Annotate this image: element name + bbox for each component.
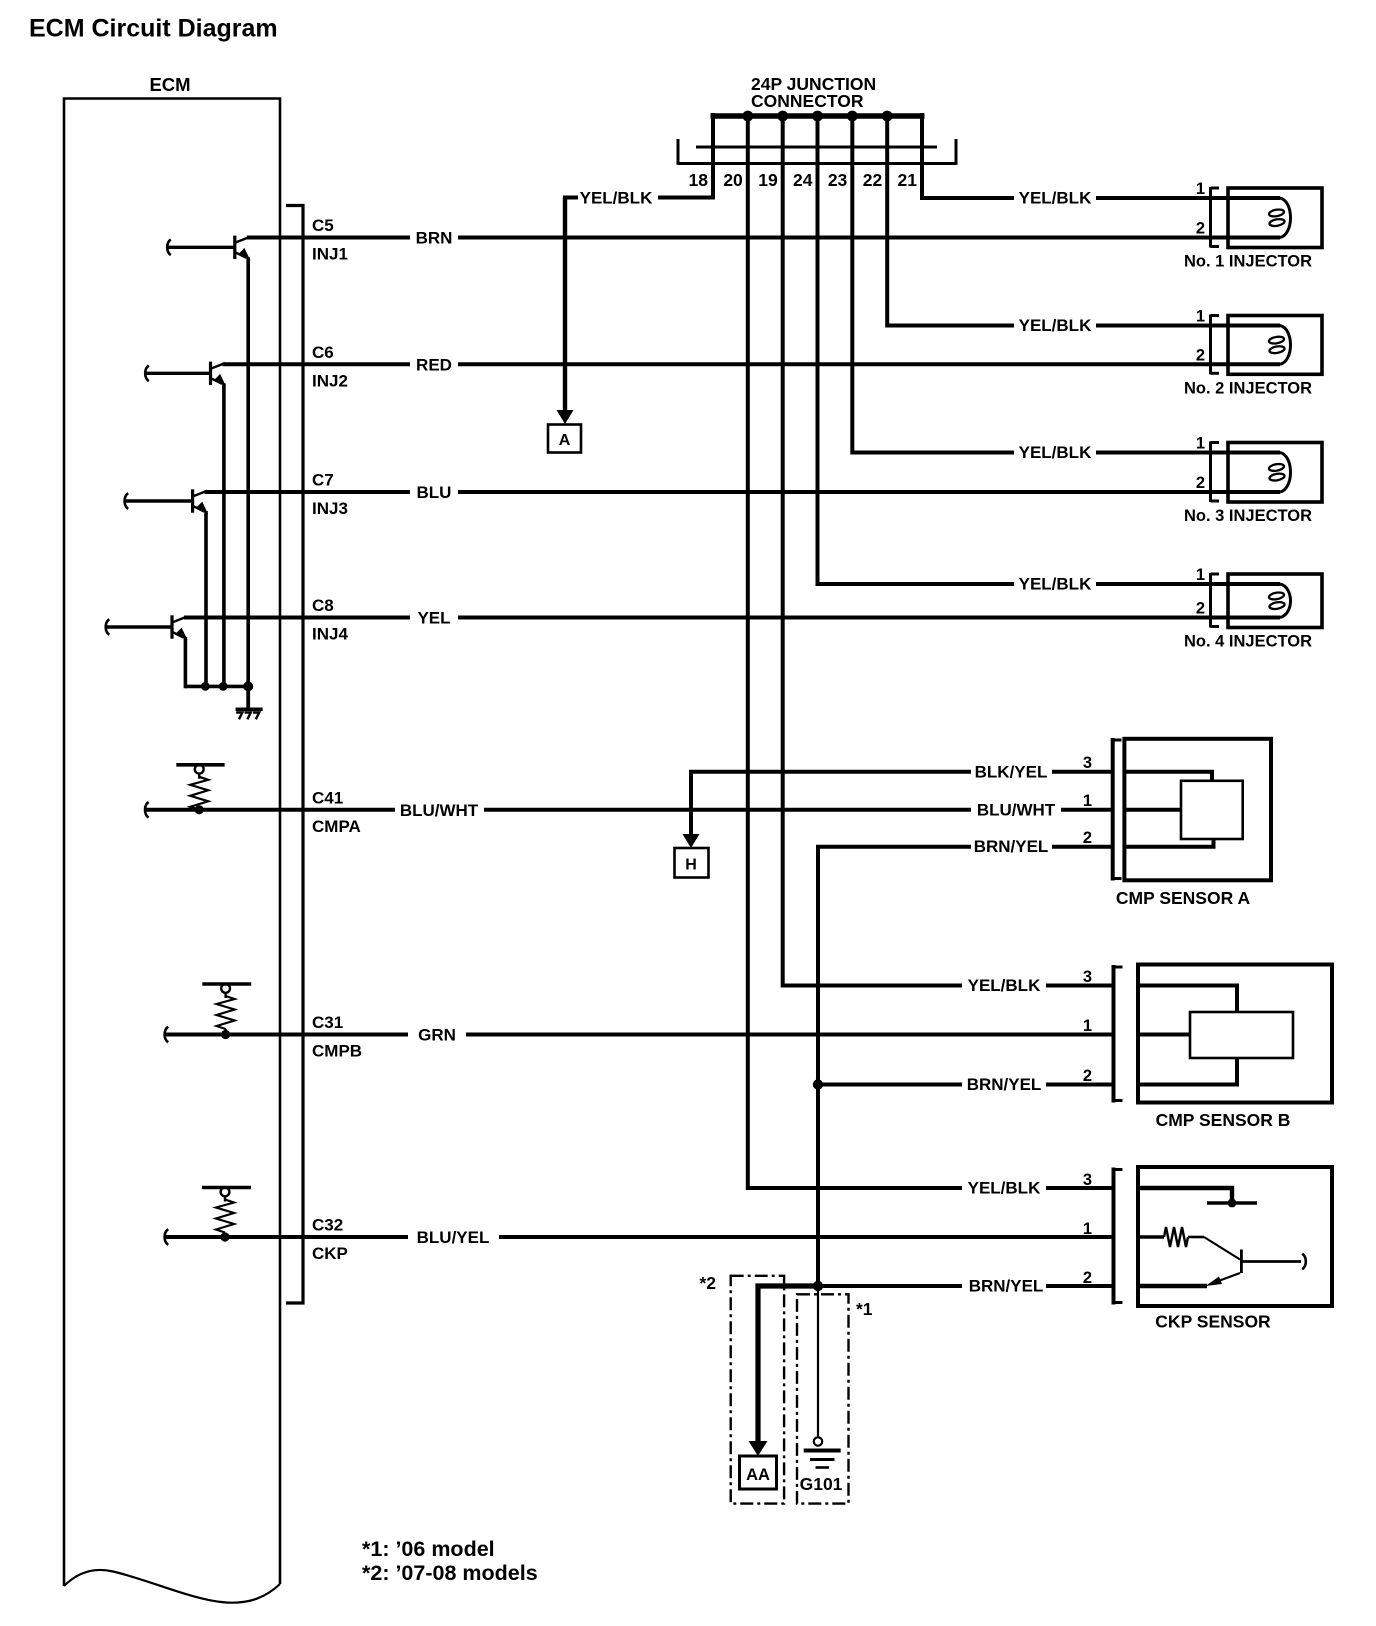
transistor Q8 emitter wire [184,637,188,688]
junction dot (C41) [195,805,204,814]
svg-text:YEL/BLK: YEL/BLK [1019,575,1092,594]
svg-text:INJ1: INJ1 [312,245,348,264]
CMP sensor B pin 1 number [1083,1017,1092,1035]
junction connector bus junction dots [742,111,892,122]
pull-up supply bar (C41) [176,763,224,767]
svg-text:18: 18 [689,170,709,190]
wire junction stub to No.4 injector pin 1 [818,113,1230,584]
svg-text:1: 1 [1196,180,1205,198]
pin 18 label [689,170,709,190]
off-page connector A [548,425,581,453]
transistor Q6 base wire [145,366,210,382]
transistor Q6 emitter wire [222,383,226,688]
svg-text:No. 3 INJECTOR: No. 3 INJECTOR [1184,507,1312,525]
svg-text:INJ3: INJ3 [312,499,348,518]
title ECM Circuit Diagram [29,15,278,43]
transistor Q6 [211,362,227,387]
svg-text:CMP SENSOR A: CMP SENSOR A [1116,888,1251,908]
CMP sensor A pin 2 number [1083,829,1092,847]
pin 19 label [758,170,778,190]
No.1 injector connector bracket [1211,187,1220,248]
No.4 injector box [1228,574,1322,628]
wire BRN/YEL (CMP B pin2) [818,1083,962,1087]
junction connector housing [678,139,956,165]
wire pin18 YEL/BLK [563,113,713,412]
wire BRN/YEL into CKP [1046,1284,1115,1288]
svg-text:2: 2 [1196,346,1205,364]
wire label YEL/BLK (pin18) [580,189,653,208]
No.4 injector connector bracket [1211,573,1220,628]
CMP sensor A box [1124,739,1271,881]
svg-text:ECM: ECM [149,74,190,95]
C31 pin label [312,1013,343,1032]
CMP sensor B inner element [1190,1012,1293,1058]
C5 pin label [312,216,334,235]
wire to G101 ('06) [817,1286,819,1438]
CMP SENSOR A label [1116,888,1251,908]
svg-text:YEL/BLK: YEL/BLK [1019,443,1092,462]
svg-text:BLK/YEL: BLK/YEL [975,762,1048,781]
svg-text:*1: ’06 model: *1: ’06 model [362,1537,495,1561]
No.2 injector pin 1 number [1196,308,1205,326]
No.2 injector connector bracket [1211,315,1220,375]
C41 pin label [312,788,343,807]
wire YEL/BLK into CMP B [1046,984,1115,988]
svg-text:19: 19 [758,170,778,190]
svg-text:21: 21 [898,170,918,190]
svg-text:2: 2 [1083,1269,1092,1287]
transistor Q8 [172,615,188,640]
svg-text:INJ4: INJ4 [312,625,348,644]
svg-text:YEL: YEL [417,609,450,628]
svg-text:1: 1 [1083,1220,1092,1238]
svg-text:No. 2 INJECTOR: No. 2 INJECTOR [1184,379,1312,397]
CMPB net label [312,1042,362,1061]
svg-text:YEL/BLK: YEL/BLK [968,976,1041,995]
wire C41 BLU/WHT to CMP A pin1 [484,808,971,812]
wire BLK/YEL (CMP A pin3) with drop to H [691,772,971,838]
svg-text:C41: C41 [312,788,343,807]
CMP sensor A connector bracket [1113,738,1122,881]
wire to AA (heavy, '07-08) [758,1286,818,1443]
No.3 injector pin 2 number [1196,474,1205,492]
pull-up supply terminal circle (C41) [195,765,204,774]
wire BRN/YEL into CMP A [1052,845,1114,849]
No.1 injector label [1184,253,1312,271]
svg-text:C7: C7 [312,471,334,490]
wire C32 BLU/YEL to CKP pin1 [499,1235,1115,1239]
off-page connector H [675,848,709,878]
CMP sensor B wire pin1 internal [1140,1033,1190,1037]
No.3 injector pin 1 number [1196,435,1205,453]
wire label BLU [417,483,452,502]
svg-text:*2: *2 [699,1273,716,1293]
wire pin21 junction stub to No.1 injector pin 1 [922,113,1229,198]
CKP net label [312,1244,348,1263]
svg-text:2: 2 [1083,1067,1092,1085]
junction dot (C32) [220,1232,229,1241]
svg-text:3: 3 [1083,754,1092,772]
transistor Q5 [235,236,251,261]
emitter bus corner junction dot [243,681,253,691]
CMP sensor B box [1138,965,1332,1103]
CKP sensor pickup element [1204,1237,1306,1286]
svg-text:2: 2 [1196,474,1205,492]
svg-text:No. 4 INJECTOR: No. 4 INJECTOR [1184,633,1312,651]
svg-text:1: 1 [1196,566,1205,584]
svg-text:CMPB: CMPB [312,1042,362,1061]
wire label BLK/YEL (CMP A pin3) [975,762,1048,781]
wire C8 YEL [184,616,1229,620]
wire C32 BLU/YEL (left) [165,1229,408,1245]
svg-text:*1: *1 [856,1299,873,1319]
svg-text:BLU/WHT: BLU/WHT [977,800,1056,819]
svg-text:C5: C5 [312,216,334,235]
No.3 injector coil [1229,453,1291,493]
svg-text:A: A [559,432,571,449]
pin 22 label [863,170,883,190]
dash-dot box *1 [797,1294,849,1503]
arrow to H [683,834,700,848]
svg-text:CMPA: CMPA [312,817,361,836]
No.4 injector label [1184,633,1312,651]
wire pin19 to CMP B pin3 [783,113,962,986]
svg-text:22: 22 [863,170,883,190]
wire label BRN/YEL (CMP A pin2) [974,837,1049,856]
No.1 injector coil [1229,198,1291,238]
CMP sensor B connector bracket [1114,965,1123,1103]
svg-text:ECM Circuit Diagram: ECM Circuit Diagram [29,15,278,43]
No.2 injector label [1184,379,1312,397]
No.1 injector pin 1 number [1196,180,1205,198]
pull-up supply terminal circle (C32) [221,1188,230,1197]
CMP sensor A pin 1 number [1083,792,1092,810]
CKP SENSOR label [1155,1312,1271,1332]
CKP sensor internal resistor [1140,1227,1204,1247]
wire C31 GRN (left) [165,1027,408,1043]
svg-text:C31: C31 [312,1013,343,1032]
svg-text:AA: AA [746,1466,770,1484]
svg-text:CKP SENSOR: CKP SENSOR [1155,1312,1271,1332]
wire label YEL/BLK (No.3 injector) [1019,443,1092,462]
CKP sensor connector bracket [1114,1168,1123,1305]
arrow to A [557,410,574,424]
dash-dot box *2 [731,1276,784,1504]
svg-text:BLU: BLU [417,483,452,502]
wire pin20 to CKP pin3 [748,113,962,1188]
wire junction stub to No.2 injector pin 1 [887,113,1229,326]
svg-text:G101: G101 [800,1474,843,1494]
transistor Q7 emitter wire [204,511,208,688]
label G101 [800,1474,843,1494]
CKP sensor pin 1 number [1083,1220,1092,1238]
footnote *2 [362,1561,538,1585]
CMP sensor A wire pin2 internal [1126,839,1214,847]
svg-text:3: 3 [1083,968,1092,986]
pin 24 label [793,170,813,190]
CMP SENSOR B label [1156,1110,1291,1130]
svg-text:2: 2 [1083,829,1092,847]
No.3 injector box [1228,443,1322,503]
svg-text:BLU/YEL: BLU/YEL [417,1228,490,1247]
svg-text:CKP: CKP [312,1244,348,1263]
wire BRN/YEL (CKP pin2) [818,1284,962,1288]
wire label BLU/WHT (CMP A pin1) [977,800,1056,819]
svg-text:C6: C6 [312,343,334,362]
wire label YEL/BLK (CKP pin3) [968,1179,1041,1198]
off-page connector AA [740,1456,777,1489]
transistor Q7 base wire [125,493,193,509]
svg-text:YEL/BLK: YEL/BLK [1019,189,1092,208]
svg-text:H: H [685,857,697,874]
C8 pin label [312,596,334,615]
svg-text:1: 1 [1196,308,1205,326]
CMP sensor A wire pin3 internal [1126,772,1212,781]
transistor Q8 base wire [106,619,172,635]
24P junction connector label [751,74,876,111]
emitter bus junction dots [201,682,228,691]
No.2 injector box [1228,316,1322,375]
wire BLK/YEL into CMP A [1052,770,1114,774]
svg-text:BRN/YEL: BRN/YEL [967,1075,1042,1094]
CKP sensor pin 3 number [1083,1171,1092,1189]
wire label BRN [416,229,453,248]
svg-text:1: 1 [1083,792,1092,810]
wire C7 BLU [205,490,1229,494]
wire junction stub to No.3 injector pin 1 [852,113,1229,453]
CMPA net label [312,817,361,836]
CKP sensor box [1138,1167,1332,1306]
CKP sensor wire pin2 internal [1140,1284,1207,1288]
CKP sensor pin 2 number [1083,1269,1092,1287]
CMP sensor A wire pin1 internal [1126,808,1181,812]
svg-text:INJ2: INJ2 [312,371,348,390]
svg-text:20: 20 [723,170,743,190]
No.2 injector pin 2 number [1196,346,1205,364]
No.4 injector coil [1229,584,1291,618]
svg-text:C8: C8 [312,596,334,615]
INJ4 net label [312,625,348,644]
svg-text:C32: C32 [312,1216,343,1235]
CMP sensor B wire pin3 internal [1140,986,1237,1013]
ECM label [149,74,190,95]
wire C5 BRN [247,236,1229,240]
wire label GRN [418,1026,456,1045]
svg-text:1: 1 [1196,435,1205,453]
INJ2 net label [312,371,348,390]
ECM box U1 (torn bottom) [64,99,280,1603]
svg-text:24: 24 [793,170,813,190]
svg-text:1: 1 [1083,1017,1092,1035]
transistor Q5 emitter wire [246,257,250,688]
pull-up supply terminal circle (C31) [221,984,230,993]
label *2 [699,1273,716,1293]
C6 pin label [312,343,334,362]
pin 23 label [828,170,848,190]
resistor R-C41 [190,774,208,810]
INJ1 net label [312,245,348,264]
svg-text:YEL/BLK: YEL/BLK [968,1179,1041,1198]
junction connector bus bar [711,113,925,119]
CKP sensor wire pin3 internal [1140,1188,1257,1207]
resistor R-C32 [216,1196,234,1237]
No.3 injector connector bracket [1211,442,1220,503]
transistor Q5 base wire [167,240,235,256]
svg-text:RED: RED [416,355,452,374]
svg-text:3: 3 [1083,1171,1092,1189]
svg-text:CONNECTOR: CONNECTOR [751,91,864,111]
wire label BRN/YEL (CMP B pin2) [967,1075,1042,1094]
wire C41 BLU/WHT (left) [145,802,395,818]
svg-text:CMP SENSOR B: CMP SENSOR B [1156,1110,1291,1130]
junction dot (C31) [221,1030,230,1039]
pull-up supply bar (C31) [202,982,251,986]
C7 pin label [312,471,334,490]
wire label RED [416,355,452,374]
svg-text:No. 1 INJECTOR: No. 1 INJECTOR [1184,253,1312,271]
svg-text:23: 23 [828,170,848,190]
wire label BLU/YEL [417,1228,490,1247]
wire C6 RED [223,362,1230,366]
INJ3 net label [312,499,348,518]
CMP sensor B pin 2 number [1083,1067,1092,1085]
resistor R-C31 [217,993,235,1035]
svg-text:BRN/YEL: BRN/YEL [974,837,1049,856]
ECM connector strip C [286,206,303,1304]
svg-text:2: 2 [1196,600,1205,618]
arrow to AA [749,1441,768,1456]
ground bus wire BRN/YEL (vertical) [818,847,971,1286]
pin 20 label [723,170,743,190]
junction dot CMP B pin2 [813,1079,823,1089]
wire label BRN/YEL (CKP pin2) [969,1277,1044,1296]
chassis ground [236,709,263,719]
junction dot CKP pin2 / grounds [813,1281,823,1291]
transistor Q7 [193,489,209,514]
svg-text:2: 2 [1196,220,1205,238]
wire label YEL/BLK (No.1 injector) [1019,189,1092,208]
svg-text:GRN: GRN [418,1026,456,1045]
svg-text:YEL/BLK: YEL/BLK [580,189,653,208]
wire label YEL [417,609,450,628]
svg-text:BLU/WHT: BLU/WHT [400,801,479,820]
svg-text:*2: ’07-08 models: *2: ’07-08 models [362,1561,538,1585]
ground stem [246,686,250,709]
No.3 injector label [1184,507,1312,525]
pull-up supply bar (C32) [202,1186,251,1190]
No.1 injector pin 2 number [1196,220,1205,238]
wire C31 GRN to CMP B pin1 [466,1033,1115,1037]
wire YEL/BLK into CKP [1046,1186,1115,1190]
wire label YEL/BLK (No.2 injector) [1019,316,1092,335]
CMP sensor B wire pin2 internal [1140,1058,1237,1085]
emitter ground bus [185,685,249,689]
svg-text:BRN/YEL: BRN/YEL [969,1277,1044,1296]
CMP sensor A pin 3 number [1083,754,1092,772]
svg-text:BRN: BRN [416,229,453,248]
pin 21 label [898,170,918,190]
G101 ground symbol [804,1437,841,1467]
wire label YEL/BLK (No.4 injector) [1019,575,1092,594]
No.4 injector pin 2 number [1196,600,1205,618]
CMP sensor A inner element [1181,781,1243,839]
No.1 injector box [1228,188,1322,248]
svg-text:YEL/BLK: YEL/BLK [1019,316,1092,335]
wire BRN/YEL into CMP B [1046,1083,1115,1087]
wire label BLU/WHT [400,801,479,820]
wire BLU/WHT into CMP A [1061,808,1114,812]
label *1 [856,1299,873,1319]
No.2 injector coil [1229,326,1291,365]
C32 pin label [312,1216,343,1235]
footnote *1 [362,1537,495,1561]
wire label YEL/BLK (CMP B pin3) [968,976,1041,995]
CMP sensor B pin 3 number [1083,968,1092,986]
No.4 injector pin 1 number [1196,566,1205,584]
